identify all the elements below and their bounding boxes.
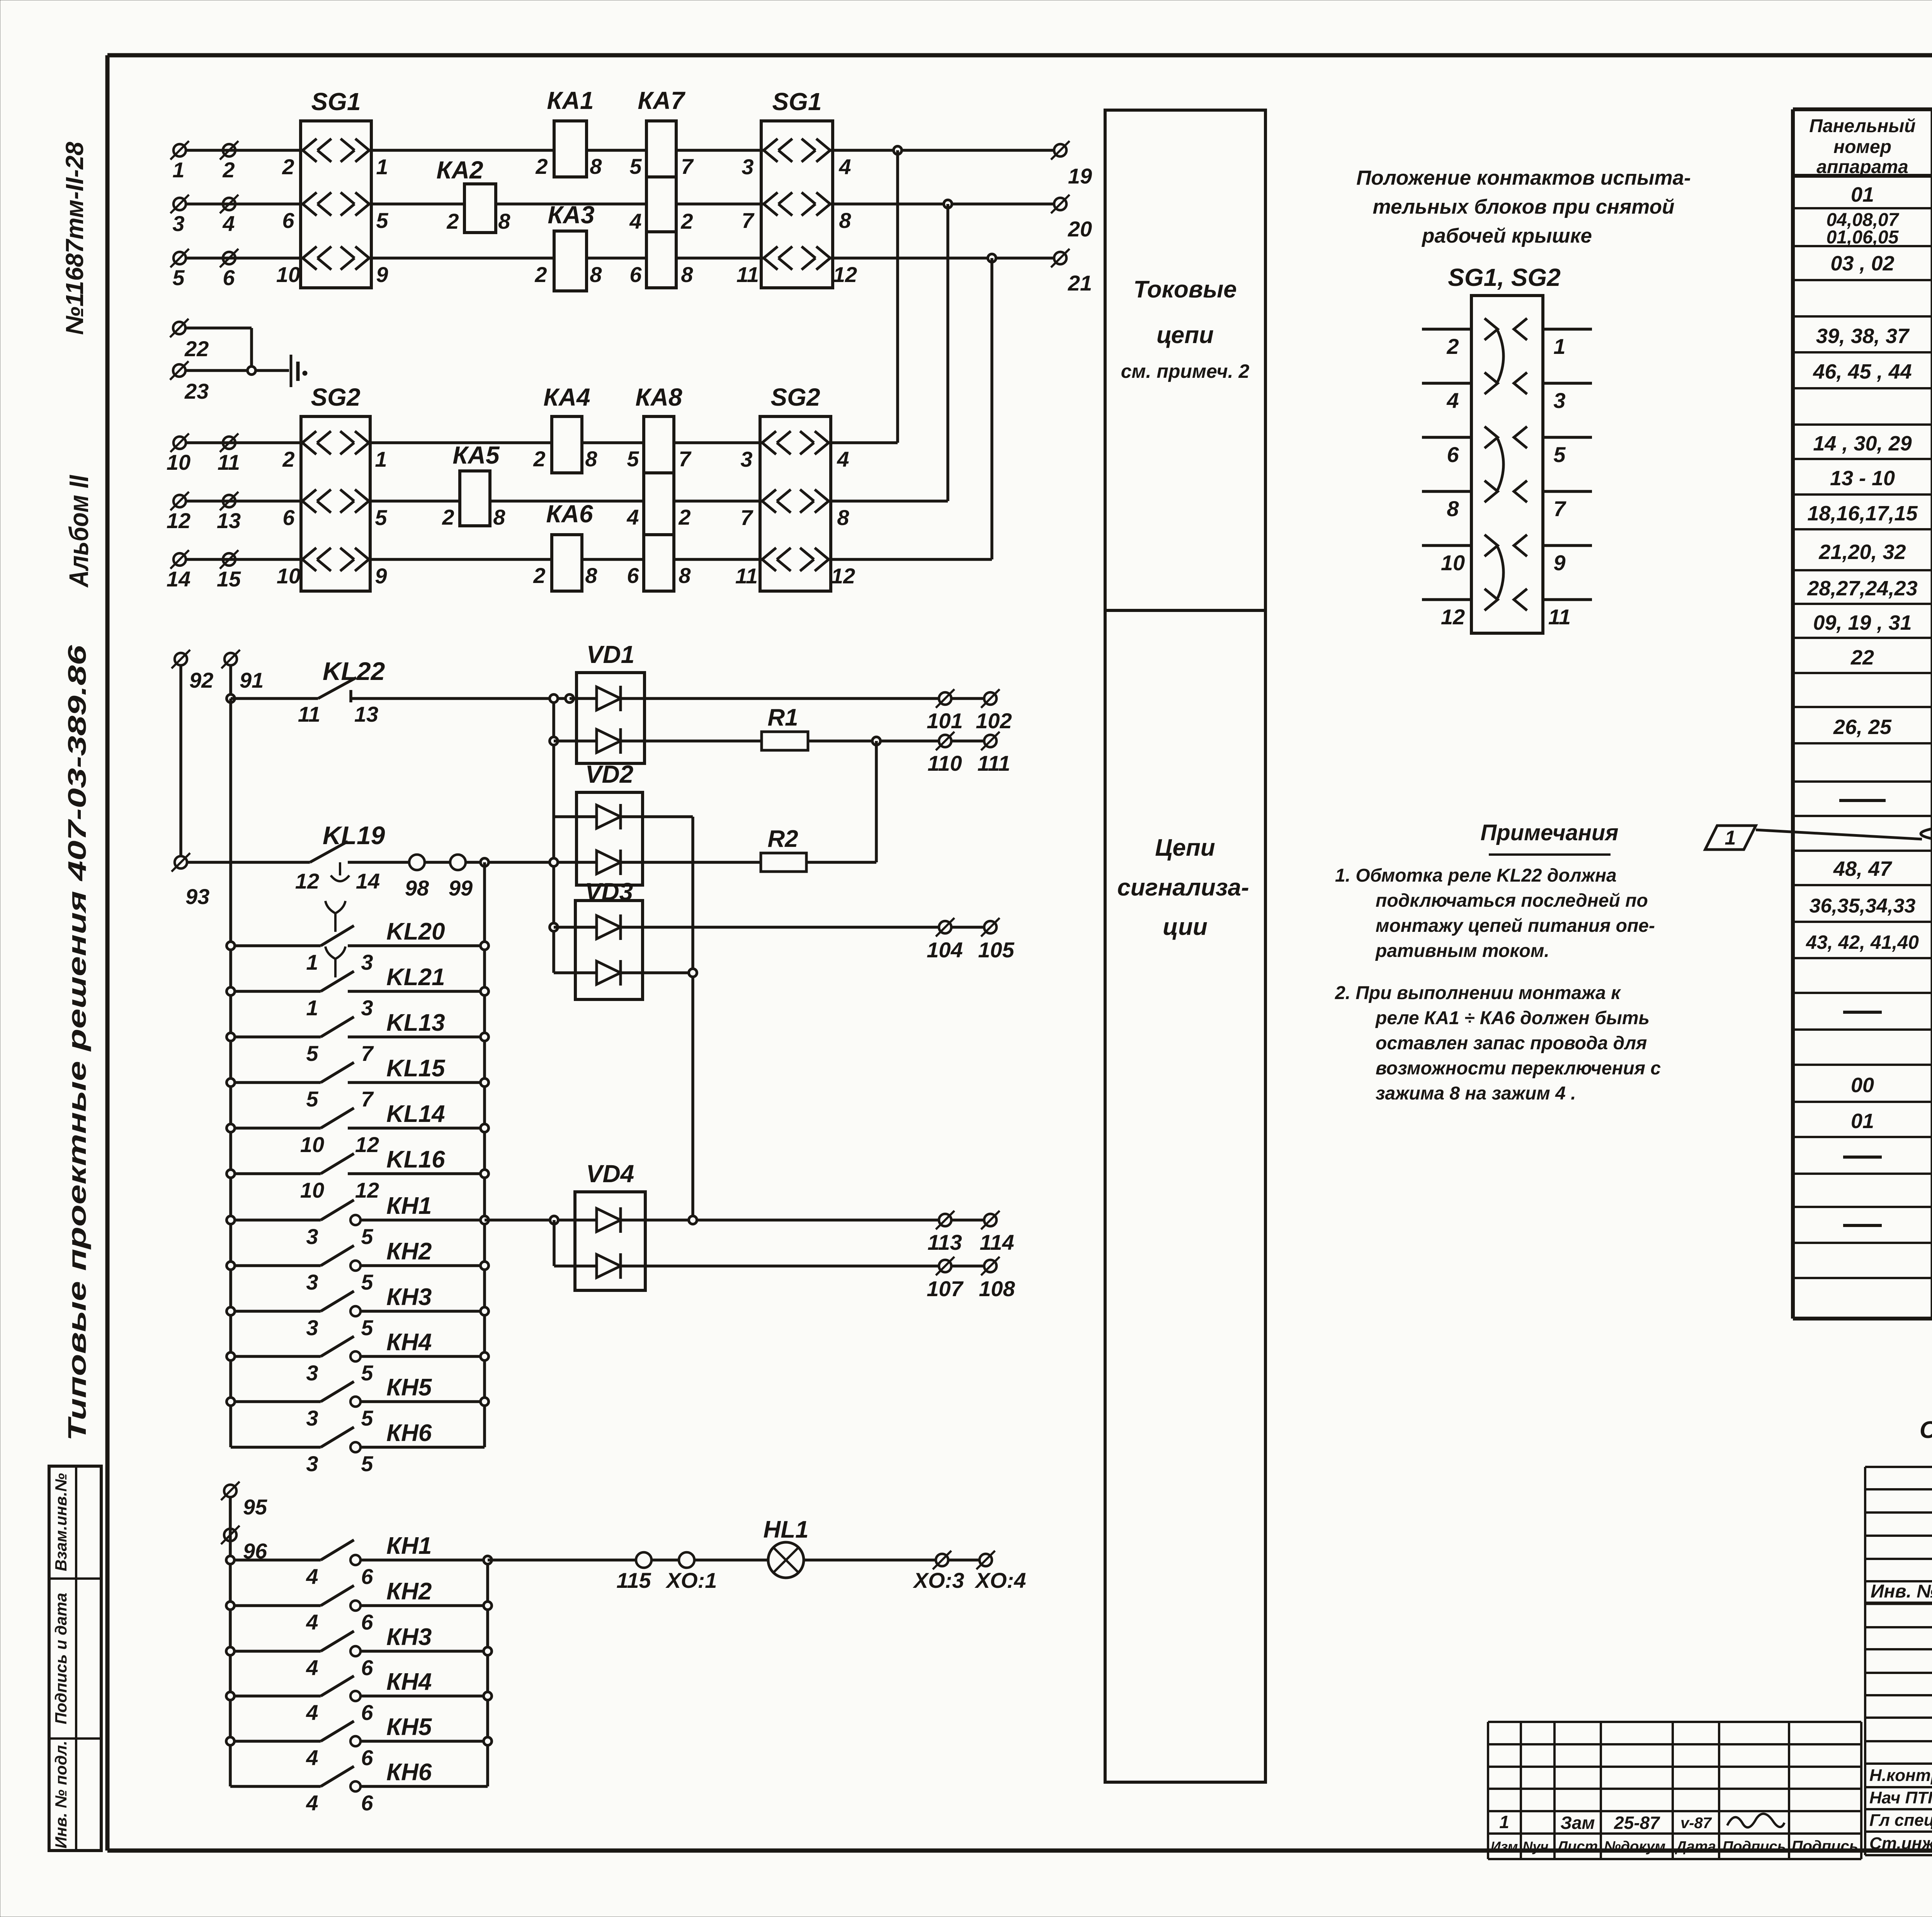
- pin label 3 (КН2): [306, 1270, 318, 1294]
- diagram pin label 12: [1441, 605, 1465, 629]
- svg-text:6: 6: [282, 208, 294, 233]
- junction VD1 input node: [566, 695, 574, 703]
- terminal label 101: [927, 709, 963, 733]
- svg-text:2: 2: [282, 155, 294, 179]
- svg-text:11: 11: [735, 564, 758, 588]
- label KL13: [386, 1009, 445, 1036]
- svg-text:12: 12: [295, 869, 319, 893]
- wire 98 to 99: [425, 861, 450, 864]
- terminal 107: [936, 1257, 954, 1275]
- wire lamp HL1 to XO:3: [804, 1558, 935, 1562]
- wire VD3.2 output to signal riser: [621, 971, 693, 974]
- svg-text:4: 4: [306, 1700, 318, 1725]
- svg-text:SG1, SG2: SG1, SG2: [1448, 263, 1561, 291]
- label КН6 (signal row): [386, 1759, 432, 1786]
- label R2: [767, 826, 798, 852]
- parts table grid: [1793, 109, 1932, 1319]
- svg-text:5: 5: [361, 1315, 373, 1340]
- relay coil КА4: [552, 416, 582, 473]
- contact KL16: [231, 1154, 485, 1174]
- svg-text:111: 111: [977, 751, 1010, 775]
- diagram pin label 1: [1553, 334, 1565, 359]
- svg-text:21,20, 32: 21,20, 32: [1818, 540, 1906, 564]
- svg-text:5: 5: [629, 154, 642, 178]
- pin label 14 (KL19): [356, 869, 380, 893]
- terminal label 114: [980, 1230, 1014, 1254]
- junction right bus KL20: [481, 942, 489, 950]
- svg-text:3: 3: [172, 211, 184, 236]
- pin label 12 (KL19): [295, 869, 319, 893]
- table row KL1,KL17,KL18: [1813, 432, 1932, 456]
- label КН2 (signal row): [386, 1578, 432, 1605]
- contact symbol SG2 right row 2: [760, 489, 831, 513]
- svg-text:КН5: КН5: [386, 1374, 432, 1401]
- junction lower right bus КН4: [484, 1692, 492, 1700]
- svg-text:28,27,24,23: 28,27,24,23: [1807, 577, 1917, 600]
- svg-text:3: 3: [306, 1315, 318, 1340]
- node circle XO:1: [679, 1552, 694, 1568]
- svg-text:2: 2: [533, 563, 545, 588]
- svg-text:2: 2: [222, 158, 235, 182]
- diode VD1.2: [597, 728, 621, 754]
- terminal label 102: [976, 709, 1012, 733]
- revision table grid: [1488, 1722, 1861, 1859]
- table row KL6-KL9: [1807, 499, 1932, 532]
- junction left bus КН4: [227, 1353, 235, 1361]
- svg-text:6: 6: [629, 262, 642, 287]
- table row КА7, КА8: [1830, 250, 1932, 279]
- svg-text:5: 5: [306, 1041, 318, 1066]
- wire row1 KA1.8 to KA7.5: [587, 149, 646, 152]
- label КА4: [543, 383, 590, 411]
- junction VD bus at KL22 row: [550, 695, 558, 703]
- wire VD bus into VD3.2: [554, 971, 597, 974]
- label КА2: [436, 156, 483, 184]
- svg-text:VD1: VD1: [587, 641, 635, 668]
- diode VD2.2: [597, 850, 621, 875]
- junction lower left bus КН4: [226, 1692, 235, 1700]
- diode VD4.1: [597, 1207, 621, 1233]
- pin label 11 (SG1 right, left side): [736, 262, 759, 287]
- svg-text:12: 12: [831, 564, 855, 588]
- svg-text:оставлен запас провода для: оставлен запас провода для: [1376, 1033, 1647, 1054]
- pin label 6 (SG2 left, left side): [282, 505, 295, 530]
- svg-text:КН3: КН3: [386, 1624, 432, 1650]
- test block contact diagram box: [1471, 296, 1543, 633]
- svg-text:8: 8: [837, 505, 849, 530]
- pin label 4 (КН3): [306, 1655, 318, 1680]
- svg-text:Подпись: Подпись: [1723, 1839, 1786, 1855]
- svg-text:108: 108: [979, 1276, 1015, 1301]
- svg-text:3: 3: [306, 1451, 318, 1476]
- diode VD3.1: [597, 914, 621, 940]
- svg-text:10: 10: [300, 1132, 324, 1157]
- svg-text:3: 3: [742, 155, 753, 179]
- svg-text:2: 2: [535, 154, 548, 178]
- pin label 3 (КН5): [306, 1406, 318, 1430]
- svg-text:7: 7: [361, 1041, 374, 1066]
- table row SX2,SX4,SX6,SX8: [1806, 927, 1932, 960]
- diagram stub left pin 4: [1422, 382, 1471, 385]
- wire row3 SG1.9 to KA3.2: [371, 257, 554, 260]
- svg-text:8: 8: [679, 563, 691, 588]
- table row Лампа: [1843, 1146, 1932, 1169]
- wire XO:3 to XO:4: [948, 1558, 979, 1562]
- svg-text:1: 1: [376, 155, 388, 179]
- pin label 1 (KL21): [306, 996, 318, 1020]
- wire VD1.2 output to resistor R1: [621, 739, 762, 743]
- svg-text:11: 11: [736, 262, 759, 287]
- diagram stub right pin 5: [1543, 436, 1592, 439]
- svg-text:КН2: КН2: [386, 1238, 432, 1265]
- svg-text:98: 98: [405, 876, 429, 900]
- svg-text:10: 10: [300, 1178, 324, 1202]
- terminal label 93: [185, 884, 209, 909]
- wire terminal 110 to 111: [952, 739, 984, 743]
- svg-text:зажима 8 на зажим 4 .: зажима 8 на зажим 4 .: [1376, 1083, 1576, 1104]
- svg-text:Инв. №: Инв. №: [1871, 1581, 1932, 1602]
- svg-text:Гл спец: Гл спец: [1869, 1811, 1932, 1830]
- terminal 93: [172, 853, 190, 872]
- pin label 2 (КА6 left): [533, 563, 545, 588]
- contact symbol SG2 left row 3: [301, 548, 370, 571]
- node circle 98: [409, 855, 425, 870]
- legend text Токовые цепи: [1121, 276, 1250, 382]
- node label XO:1: [665, 1568, 717, 1592]
- svg-text:SG2: SG2: [770, 383, 820, 411]
- contact КН5 (signal row): [230, 1721, 488, 1746]
- terminal 23: [170, 361, 189, 380]
- terminal 3: [170, 195, 189, 213]
- junction lower right bus КН5: [484, 1737, 492, 1745]
- contact КН2 (signal row): [230, 1586, 488, 1611]
- legend text Цепи сигнализации: [1117, 834, 1249, 940]
- terminal label 104: [927, 938, 963, 962]
- svg-text:110: 110: [927, 751, 962, 775]
- label КН4: [386, 1329, 432, 1356]
- diagram pin label 6: [1447, 442, 1459, 467]
- svg-text:VD2: VD2: [585, 760, 634, 788]
- riser row4 to row1: [896, 150, 899, 443]
- svg-text:13: 13: [354, 702, 378, 726]
- svg-text:6: 6: [282, 505, 295, 530]
- label КА3: [548, 201, 594, 229]
- junction right bus KL21: [481, 987, 489, 996]
- terminal label 107: [927, 1276, 964, 1301]
- svg-text:7: 7: [361, 1087, 374, 1111]
- junction left bus KL15: [227, 1079, 235, 1087]
- pin label 5 (КН4): [361, 1361, 373, 1385]
- pin label 3 (SG2 right, left side): [740, 447, 752, 471]
- junction right bus КН1: [481, 1216, 489, 1224]
- wire VD bus into VD1.2: [554, 739, 597, 743]
- wire VD bus into VD3.1: [554, 926, 597, 929]
- svg-text:KL15: KL15: [386, 1055, 446, 1082]
- svg-text:12: 12: [167, 508, 190, 533]
- contact КН3 (signal row): [230, 1631, 488, 1656]
- label KL14: [386, 1101, 445, 1127]
- svg-text:4: 4: [629, 209, 641, 233]
- diode VD3.2: [597, 960, 621, 986]
- wire terminal 22 jog: [186, 328, 252, 370]
- svg-text:01,06,05: 01,06,05: [1827, 227, 1899, 248]
- label КН4 (signal row): [386, 1669, 432, 1695]
- terminal label 3: [172, 211, 184, 236]
- node circle 99: [450, 855, 466, 870]
- svg-text:23: 23: [184, 379, 209, 403]
- terminal label 5: [172, 265, 185, 290]
- riser row5 to row2: [946, 204, 949, 501]
- pin label 4 (SG1 right, right side): [838, 155, 851, 179]
- wire VD1.1 output to terminal 101: [621, 697, 938, 700]
- pin label 2 (KA7 right): [680, 209, 693, 233]
- wire row3 SG1 pin12 to terminal 21: [833, 257, 1054, 260]
- label VD4: [586, 1160, 634, 1188]
- ladder right bus: [483, 862, 486, 1447]
- svg-text:Дата: Дата: [1675, 1839, 1716, 1855]
- terminal label 105: [978, 938, 1014, 962]
- svg-text:6: 6: [361, 1610, 373, 1634]
- terminal 21: [1051, 249, 1070, 267]
- junction right bus КН3: [481, 1307, 489, 1315]
- terminal label 113: [927, 1230, 962, 1254]
- diode block VD4: [575, 1192, 645, 1290]
- contact KL14: [231, 1108, 485, 1128]
- junction right bus КН5: [481, 1398, 489, 1406]
- terminal label 21: [1068, 271, 1092, 295]
- svg-text:8: 8: [681, 262, 693, 287]
- wire row1 SG1 pin4 to terminal 19: [833, 149, 1054, 152]
- svg-text:Зам: Зам: [1560, 1813, 1595, 1833]
- lamp HL1: [768, 1542, 804, 1578]
- test block SG1 (left instance): [301, 121, 371, 288]
- svg-text:10: 10: [277, 564, 301, 588]
- pin label 3 (SG1 right, left side): [742, 155, 753, 179]
- svg-text:Положение контактов испыта-: Положение контактов испыта-: [1356, 167, 1691, 189]
- contact symbol SG1 left row 1: [301, 139, 371, 162]
- wire from terminal 5 to SG1 left block: [186, 257, 301, 260]
- junction left bus KL16: [227, 1170, 235, 1178]
- pin label 10 (SG2 left, left side): [277, 564, 301, 588]
- contact KL13: [231, 1017, 485, 1037]
- svg-text:4: 4: [838, 155, 851, 179]
- svg-text:6: 6: [627, 563, 639, 588]
- title block stamp grid: [1865, 1467, 1932, 1855]
- wire row4 SG2.1 to KA4.2: [370, 441, 552, 444]
- svg-text:7: 7: [740, 505, 753, 530]
- svg-text:115: 115: [616, 1568, 651, 1592]
- svg-text:102: 102: [976, 709, 1012, 733]
- margin text N11687тм-II-28: [61, 142, 88, 335]
- pin label 12 (SG2 right, right side): [831, 564, 855, 588]
- svg-text:№докум.: №докум.: [1604, 1839, 1670, 1855]
- revision header row: [1491, 1838, 1859, 1855]
- pin label 5 (КН1): [361, 1224, 373, 1249]
- svg-text:КН4: КН4: [386, 1329, 432, 1356]
- svg-text:9: 9: [1553, 551, 1565, 575]
- label КН1 (signal row): [386, 1533, 432, 1559]
- pin label 8 (КА6 right): [585, 563, 597, 588]
- diagram pin label 7: [1553, 496, 1566, 521]
- svg-text:1: 1: [172, 158, 184, 182]
- junction VD bus at VD3.1 row: [550, 923, 558, 931]
- junction right bus KL16: [481, 1170, 489, 1178]
- margin label Инв. № подл.: [52, 1740, 70, 1848]
- svg-text:101: 101: [927, 709, 963, 733]
- diagram contact pair 8-7: [1485, 481, 1527, 502]
- diagram pin label 11: [1548, 605, 1571, 629]
- svg-text:6: 6: [361, 1700, 373, 1725]
- pin label 5 (KA7 left): [629, 154, 642, 178]
- wire from terminal 3 to SG1 left block: [186, 202, 301, 206]
- junction lower left bus КН3: [226, 1647, 235, 1655]
- svg-text:7: 7: [1553, 496, 1566, 521]
- ladder left bus (from terminal 91): [229, 698, 232, 1447]
- diagram stub right pin 3: [1543, 382, 1592, 385]
- terminal label 96: [243, 1539, 267, 1563]
- svg-text:22: 22: [1850, 646, 1874, 669]
- diagram stub left pin 10: [1422, 544, 1471, 547]
- terminal label 11: [218, 450, 240, 474]
- notes title Примечания: [1481, 820, 1619, 855]
- pin label 4 (КН4): [306, 1700, 318, 1725]
- svg-text:5: 5: [361, 1361, 373, 1385]
- pin label 5 (КН3): [361, 1315, 373, 1340]
- wire КН1 row to VD4: [485, 1219, 597, 1222]
- diagram contact link: [1498, 331, 1503, 382]
- wire R2 to R1 output node: [806, 741, 876, 862]
- terminal label 2: [222, 158, 235, 182]
- legend box Токовые цепи: [1105, 110, 1265, 610]
- svg-text:Изм: Изм: [1491, 1839, 1518, 1854]
- terminal 4: [220, 195, 238, 213]
- label KL19: [323, 821, 385, 850]
- svg-text:09, 19 , 31: 09, 19 , 31: [1813, 611, 1912, 634]
- svg-text:12: 12: [355, 1132, 379, 1157]
- pin label 8 (SG2 right, right side): [837, 505, 849, 530]
- svg-text:3: 3: [361, 996, 373, 1020]
- junction right bus KL15: [481, 1079, 489, 1087]
- pin label 5 (KL15): [306, 1087, 318, 1111]
- svg-text:2: 2: [446, 209, 459, 233]
- pin label 6 (КН5): [361, 1745, 373, 1770]
- terminal 96: [221, 1526, 240, 1544]
- wire row2 KA2.8 to KA7.4: [496, 202, 646, 206]
- label КА5: [452, 441, 500, 469]
- diode block VD2: [577, 792, 643, 885]
- junction left bus КН5: [227, 1398, 235, 1406]
- relay coil КА1: [554, 121, 587, 177]
- diagram stub right pin 9: [1543, 544, 1592, 547]
- svg-text:XO:1: XO:1: [665, 1568, 717, 1592]
- contact КН6: [231, 1427, 485, 1452]
- diagram contact pair 6-5: [1485, 427, 1527, 448]
- wire VD4.2 output to terminal 107: [621, 1264, 938, 1268]
- pin label 8 (KA8 right): [679, 563, 691, 588]
- junction row3/row6 riser: [988, 254, 996, 262]
- svg-text:Примечания: Примечания: [1481, 820, 1619, 845]
- test block SG1 (right instance): [761, 121, 833, 288]
- junction KL22 left node: [227, 695, 235, 703]
- wire from terminal 14 to SG2 left block: [186, 558, 301, 561]
- label КН2: [386, 1238, 432, 1265]
- contact КН4 (signal row): [230, 1676, 488, 1701]
- terminal label 23: [184, 379, 209, 403]
- wire terminal 92 down to terminal 93: [179, 666, 182, 856]
- wire row6 KA8.8 to SG2 right pin11: [674, 558, 760, 561]
- contact КН1: [231, 1200, 485, 1225]
- pin label 12 (KL16): [355, 1178, 379, 1202]
- terminal 15: [220, 550, 238, 569]
- wire row2 KA7.2 to SG1 right pin7: [676, 202, 761, 206]
- svg-text:КА4: КА4: [543, 383, 590, 411]
- svg-text:Токовые: Токовые: [1133, 276, 1237, 303]
- diagram stub right pin 1: [1543, 328, 1592, 331]
- wire row4 KA4.8 to KA8.5: [582, 441, 644, 444]
- svg-text:36,35,34,33: 36,35,34,33: [1810, 895, 1916, 917]
- diagram pin label 5: [1553, 442, 1566, 467]
- wire from terminal 12 to SG2 left block: [186, 500, 301, 503]
- diagram pin label 9: [1553, 551, 1565, 575]
- svg-text:ции: ции: [1163, 914, 1207, 940]
- svg-text:93: 93: [185, 884, 209, 909]
- svg-text:14 , 30, 29: 14 , 30, 29: [1813, 432, 1912, 455]
- wire row5 SG2 pin8 to riser: [831, 500, 948, 503]
- table row KL19,KL20,KL21: [1813, 611, 1932, 635]
- pin label 3 (KL21): [361, 996, 373, 1020]
- svg-text:SG2: SG2: [311, 383, 360, 411]
- pin label 8 (КА3 right): [590, 262, 602, 287]
- test block SG2 (right instance): [760, 416, 831, 591]
- svg-text:107: 107: [927, 1276, 964, 1301]
- svg-text:6: 6: [223, 265, 235, 290]
- wire terminal 101 to 102: [952, 697, 984, 700]
- terminal 105: [981, 918, 1000, 936]
- svg-text:14: 14: [356, 869, 380, 893]
- terminal label XO:3: [913, 1568, 964, 1592]
- margin text Альбом II: [64, 475, 94, 588]
- pin label 5 (SG1 left, right side): [376, 208, 388, 233]
- svg-text:8: 8: [1447, 496, 1459, 521]
- pin label 8 (КА4 right): [585, 447, 597, 471]
- diagram contact pair 12-11: [1485, 589, 1527, 610]
- table row HL1: [1851, 1110, 1932, 1134]
- svg-text:2: 2: [680, 209, 693, 233]
- svg-text:Nуч.: Nуч.: [1522, 1839, 1552, 1854]
- svg-text:43, 42, 41,40: 43, 42, 41,40: [1806, 931, 1919, 953]
- terminal label 92: [189, 668, 213, 692]
- contact symbol SG2 left row 1: [301, 431, 370, 454]
- pin label 11 (SG2 right, left side): [735, 564, 758, 588]
- node label 98: [405, 876, 429, 900]
- svg-text:реле КА1 ÷ КА6 должен быть: реле КА1 ÷ КА6 должен быть: [1375, 1008, 1650, 1028]
- contact symbol SG1 right row 1: [761, 139, 833, 162]
- pin label 4 (KA7 left): [629, 209, 641, 233]
- svg-text:114: 114: [980, 1230, 1014, 1254]
- svg-text:Подпись: Подпись: [1792, 1838, 1859, 1855]
- svg-text:3: 3: [306, 1361, 318, 1385]
- label VD3: [585, 878, 633, 906]
- svg-text:Нач ПТП: Нач ПТП: [1869, 1788, 1932, 1807]
- pin label 2 (KA8 right): [678, 505, 690, 529]
- svg-text:11: 11: [298, 702, 320, 726]
- diagram pin label 10: [1441, 551, 1465, 575]
- wire row5 KA5.8 to KA8.4: [490, 500, 644, 503]
- label SG1 (left): [311, 88, 361, 116]
- svg-text:КН2: КН2: [386, 1578, 432, 1605]
- table row КН2,КН4,КН6: [1813, 360, 1932, 384]
- pin label 5 (КН6): [361, 1451, 373, 1476]
